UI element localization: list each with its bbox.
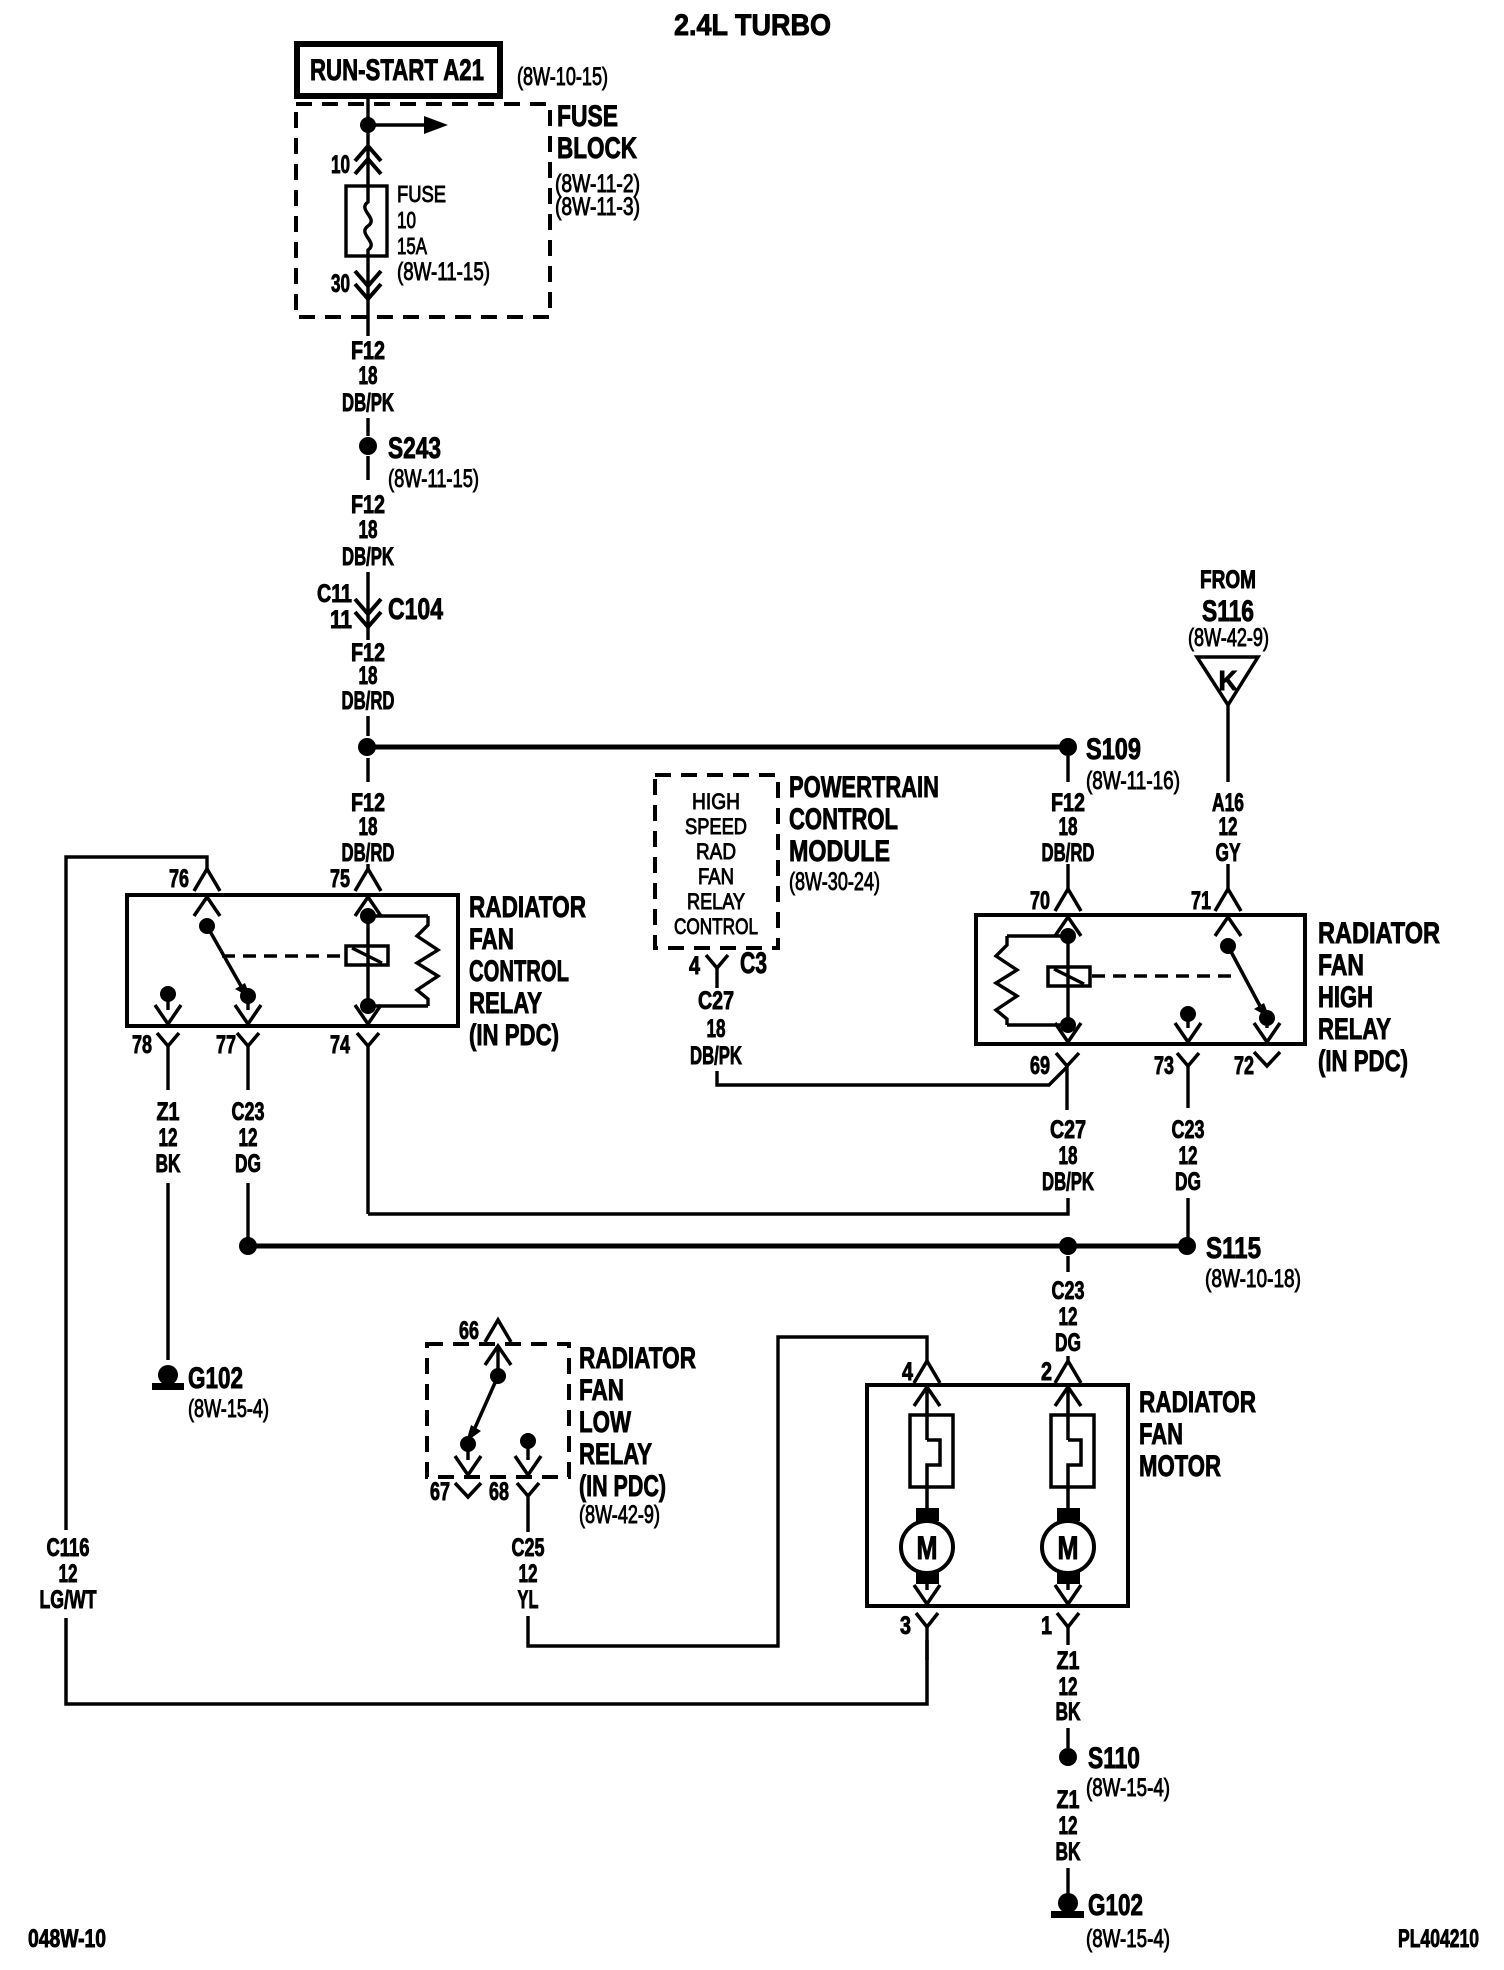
svg-text:DG: DG <box>235 1150 261 1178</box>
wire RUN-START to fuse <box>366 96 369 186</box>
svg-text:C27: C27 <box>698 987 734 1015</box>
value label FUSE 10 15A <box>397 181 490 286</box>
fuse block dashed box <box>296 104 550 317</box>
svg-text:C23: C23 <box>1052 1277 1085 1305</box>
relay switch arm 66-67 <box>460 1346 506 1452</box>
node RUN-START A21 feed box <box>297 44 500 96</box>
wire 78 to G102 <box>166 1183 169 1360</box>
svg-text:12: 12 <box>1059 1303 1078 1331</box>
pin 75 inner chevron <box>355 897 381 916</box>
pin 76 terminal <box>169 865 220 893</box>
relay coil winding resistor <box>368 916 438 1006</box>
connector C104 pin C11/11 (double chevron) <box>317 572 443 640</box>
svg-text:RELAY: RELAY <box>1318 1013 1391 1046</box>
svg-text:70: 70 <box>1030 887 1050 915</box>
svg-text:76: 76 <box>169 865 189 893</box>
pin 70 inner chevron <box>1055 917 1081 936</box>
svg-text:C104: C104 <box>388 593 443 626</box>
svg-text:DB/PK: DB/PK <box>1042 1168 1094 1196</box>
node junction at S109 bus left <box>358 738 376 756</box>
connector C3 pin 4 <box>689 947 767 988</box>
svg-text:75: 75 <box>330 865 350 893</box>
wire S109 to 70 <box>1066 756 1069 782</box>
svg-text:18: 18 <box>707 1015 726 1043</box>
wire 70 to 69 through coil <box>1060 928 1076 1033</box>
svg-text:Z1: Z1 <box>1057 1786 1080 1814</box>
relay coil armature box <box>1048 967 1090 986</box>
pin 4 inner chevron <box>914 1387 940 1406</box>
svg-text:(IN PDC): (IN PDC) <box>469 1019 559 1052</box>
svg-text:BK: BK <box>1056 1698 1081 1726</box>
pin 74 connector Y <box>330 1031 379 1214</box>
svg-text:18: 18 <box>1059 1142 1078 1170</box>
pin 77 connector Y <box>216 1031 259 1090</box>
svg-text:DB/RD: DB/RD <box>342 687 395 715</box>
relay K3 radiator fan low relay dashed box <box>427 1344 569 1477</box>
svg-text:12: 12 <box>1059 1673 1078 1701</box>
svg-text:C27: C27 <box>1050 1116 1086 1144</box>
svg-text:4: 4 <box>689 952 700 980</box>
circuit breaker left <box>910 1387 953 1508</box>
motor brush right bottom <box>1057 1571 1080 1584</box>
wire label C116 12 LG/WT <box>40 1534 97 1614</box>
svg-text:(IN PDC): (IN PDC) <box>1318 1045 1408 1078</box>
svg-text:RUN-START A21: RUN-START A21 <box>310 54 484 87</box>
svg-text:(8W-42-9): (8W-42-9) <box>1188 624 1269 652</box>
svg-text:(8W-10-18): (8W-10-18) <box>1205 1265 1301 1293</box>
svg-text:SPEED: SPEED <box>685 814 747 839</box>
wire 1 to S110 <box>1066 1728 1069 1748</box>
wire label A16 12 GY <box>1212 789 1244 867</box>
wire label Z1 12 BK <box>1056 1786 1081 1866</box>
node FROM S116 feed <box>1188 566 1269 652</box>
svg-text:FAN: FAN <box>579 1374 624 1407</box>
svg-text:(8W-10-15): (8W-10-15) <box>517 63 608 91</box>
svg-text:(8W-15-4): (8W-15-4) <box>188 1395 269 1423</box>
component name RADIATOR FAN HIGH RELAY <box>1318 917 1440 1078</box>
svg-text:12: 12 <box>1179 1142 1198 1170</box>
svg-text:CONTROL: CONTROL <box>469 955 569 988</box>
pin 73 inner dot and chevron <box>1175 1006 1201 1042</box>
svg-text:68: 68 <box>489 1478 509 1506</box>
wire <box>366 418 369 436</box>
svg-text:DG: DG <box>1175 1168 1201 1196</box>
svg-text:15A: 15A <box>397 233 427 259</box>
wire C116 to motor 3 <box>66 1618 927 1704</box>
svg-text:78: 78 <box>132 1031 152 1059</box>
svg-text:2.4L TURBO: 2.4L TURBO <box>674 9 831 42</box>
pin 2 inner chevron <box>1055 1387 1081 1406</box>
svg-text:M: M <box>917 1530 938 1566</box>
motor brush left top <box>916 1508 939 1521</box>
wire 74 to 69 <box>368 1198 1068 1214</box>
wire label Z1 12 BK <box>1056 1647 1081 1726</box>
wire K to A16 label <box>1226 705 1229 782</box>
svg-text:DG: DG <box>1055 1329 1081 1357</box>
relay K2 radiator fan high relay box <box>976 915 1305 1044</box>
wire label F12 18 DB/RD <box>1042 789 1095 867</box>
node junction dot in fuse block <box>360 117 376 133</box>
svg-text:LG/WT: LG/WT <box>40 1586 97 1614</box>
svg-text:BLOCK: BLOCK <box>557 132 637 165</box>
svg-text:C11: C11 <box>317 580 352 608</box>
svg-text:12: 12 <box>519 1560 538 1588</box>
svg-text:DB/PK: DB/PK <box>690 1042 742 1070</box>
pin 74 inner chevron <box>355 1005 381 1024</box>
wire <box>366 456 369 480</box>
svg-text:18: 18 <box>1059 813 1078 841</box>
pin 3 inner chevron <box>914 1584 940 1604</box>
svg-text:66: 66 <box>459 1317 479 1345</box>
svg-text:POWERTRAIN: POWERTRAIN <box>789 771 939 804</box>
svg-text:71: 71 <box>1191 887 1211 915</box>
pin 72 inner chevron <box>1254 1018 1280 1042</box>
wire S109 bus <box>367 745 1068 750</box>
pin 10 fuse block terminal (double chevron) <box>331 146 381 179</box>
svg-text:LOW: LOW <box>579 1406 632 1439</box>
svg-text:MOTOR: MOTOR <box>1139 1450 1221 1483</box>
svg-text:S243: S243 <box>388 432 441 465</box>
wire S110 to G102 <box>1066 1868 1069 1895</box>
wire 68 to motor 4 <box>528 1337 927 1646</box>
ground G102 right <box>1051 1889 1170 1953</box>
pin 2 terminal <box>1041 1356 1081 1386</box>
svg-text:DB/PK: DB/PK <box>342 389 394 417</box>
motor brush right top <box>1057 1508 1080 1521</box>
module PCM dashed box <box>655 775 778 948</box>
pin 69 connector Y <box>1030 1052 1079 1110</box>
svg-text:18: 18 <box>359 516 378 544</box>
pin 67 inner chevron <box>455 1444 481 1475</box>
svg-text:RADIATOR: RADIATOR <box>1318 917 1440 950</box>
motor M right <box>1042 1521 1094 1573</box>
svg-text:(8W-11-3): (8W-11-3) <box>555 193 640 221</box>
wire label Z1 12 BK <box>156 1098 181 1178</box>
circuit breaker right <box>1051 1387 1094 1508</box>
wire label C27 18 DB/PK <box>690 987 742 1070</box>
svg-text:C3: C3 <box>740 947 767 980</box>
svg-text:69: 69 <box>1030 1052 1050 1080</box>
ground G102 left <box>152 1362 269 1423</box>
svg-text:S110: S110 <box>1088 1742 1140 1775</box>
svg-text:(8W-11-16): (8W-11-16) <box>1086 767 1180 795</box>
svg-text:67: 67 <box>430 1478 450 1506</box>
svg-text:RADIATOR: RADIATOR <box>1139 1386 1256 1419</box>
motor brush left bottom <box>916 1571 939 1584</box>
svg-text:12: 12 <box>239 1124 258 1152</box>
pin 70 terminal <box>1030 864 1081 915</box>
svg-text:30: 30 <box>331 270 350 298</box>
pin 1 connector Y <box>1041 1612 1079 1645</box>
wire 73 to S115 <box>1186 1198 1189 1240</box>
svg-text:(8W-11-15): (8W-11-15) <box>397 258 490 286</box>
svg-text:RELAY: RELAY <box>687 889 745 914</box>
relay switch arm 76-77 <box>199 918 256 1004</box>
svg-text:12: 12 <box>1219 813 1238 841</box>
svg-text:BK: BK <box>1056 1838 1081 1866</box>
svg-text:18: 18 <box>359 662 378 690</box>
svg-text:HIGH: HIGH <box>692 789 740 814</box>
svg-text:12: 12 <box>1059 1812 1078 1840</box>
svg-text:(8W-15-4): (8W-15-4) <box>1086 1774 1170 1802</box>
component name FUSE BLOCK <box>555 100 640 221</box>
svg-text:Z1: Z1 <box>157 1098 180 1126</box>
pin 73 connector Y <box>1154 1052 1199 1108</box>
svg-text:11: 11 <box>330 606 352 634</box>
pin 78 inner dot and chevron <box>155 986 181 1024</box>
svg-text:18: 18 <box>359 362 378 390</box>
pin 76 inner chevron <box>194 897 220 916</box>
pin 68 inner dot and chevron <box>515 1433 541 1475</box>
pin 66 inner chevron <box>485 1346 511 1365</box>
svg-text:YL: YL <box>518 1586 539 1614</box>
pin 67 chevron <box>430 1478 481 1506</box>
pin 71 inner chevron <box>1215 917 1241 936</box>
svg-text:FAN: FAN <box>1139 1418 1183 1451</box>
svg-text:RELAY: RELAY <box>579 1438 652 1471</box>
pin 1 inner chevron <box>1055 1584 1081 1604</box>
pin 68 connector Y <box>489 1478 539 1532</box>
svg-text:C25: C25 <box>512 1534 545 1562</box>
connector K triangle <box>1197 657 1258 705</box>
wire label C23 12 DG <box>1052 1277 1085 1357</box>
pin 30 fuse block terminal (double chevron) <box>331 256 381 336</box>
relay K1 radiator fan control relay box <box>127 895 458 1026</box>
svg-text:RAD: RAD <box>696 839 736 864</box>
svg-text:CONTROL: CONTROL <box>789 803 898 836</box>
svg-text:S115: S115 <box>1206 1232 1261 1265</box>
wire <box>366 758 369 782</box>
component name POWERTRAIN CONTROL MODULE <box>789 771 939 896</box>
svg-text:F12: F12 <box>351 491 385 519</box>
motor M1 radiator fan motor box <box>867 1385 1128 1606</box>
pin 69 inner chevron <box>1055 1023 1081 1042</box>
wire S115 to motor 2 <box>1066 1256 1069 1272</box>
component name RADIATOR FAN LOW RELAY <box>579 1342 696 1529</box>
wire label C27 18 DB/PK <box>1042 1116 1094 1196</box>
svg-text:(8W-30-24): (8W-30-24) <box>789 868 880 896</box>
svg-text:3: 3 <box>900 1612 911 1640</box>
svg-text:73: 73 <box>1154 1052 1174 1080</box>
svg-text:DB/RD: DB/RD <box>342 839 395 867</box>
pin 66 terminal <box>459 1317 511 1345</box>
wire label C23 12 DG <box>232 1098 265 1178</box>
wire 77 to S115 <box>246 1183 249 1240</box>
svg-text:MODULE: MODULE <box>789 835 890 868</box>
svg-text:DB/RD: DB/RD <box>1042 839 1095 867</box>
node S109 splice <box>1059 733 1180 795</box>
svg-text:PL404210: PL404210 <box>1398 1925 1479 1953</box>
svg-text:M: M <box>1058 1530 1079 1566</box>
svg-text:FUSE: FUSE <box>397 181 446 207</box>
svg-text:77: 77 <box>216 1031 236 1059</box>
wire label F12 18 DB/PK <box>342 337 394 417</box>
pin 3 connector Y <box>900 1612 938 1660</box>
svg-text:12: 12 <box>159 1124 178 1152</box>
node S243 splice <box>359 432 479 493</box>
svg-text:FAN: FAN <box>1318 949 1364 982</box>
svg-text:74: 74 <box>330 1031 350 1059</box>
svg-text:048W-10: 048W-10 <box>28 1925 106 1953</box>
relay switch arm 71-72 <box>1220 938 1275 1026</box>
svg-text:(8W-42-9): (8W-42-9) <box>579 1501 660 1529</box>
svg-text:(IN PDC): (IN PDC) <box>579 1470 666 1503</box>
svg-text:C23: C23 <box>232 1098 265 1126</box>
svg-text:(8W-11-15): (8W-11-15) <box>388 465 479 493</box>
svg-text:S109: S109 <box>1086 733 1141 766</box>
relay coil link dashed <box>222 954 344 957</box>
wire PCM to pin 69 <box>717 1067 1067 1085</box>
wire label F12 18 DB/PK <box>342 491 394 571</box>
pin 77 inner chevron <box>235 996 261 1024</box>
motor M left <box>901 1521 953 1573</box>
wire arrow feed to other circuits <box>368 116 448 134</box>
component name RADIATOR FAN CONTROL RELAY <box>469 891 586 1052</box>
svg-text:C23: C23 <box>1172 1116 1205 1144</box>
relay coil winding resistor <box>996 936 1068 1025</box>
component name RADIATOR FAN MOTOR <box>1139 1386 1256 1483</box>
wire <box>366 716 369 736</box>
svg-text:FAN: FAN <box>698 864 734 889</box>
pin 72 chevron <box>1234 1052 1280 1080</box>
svg-text:RADIATOR: RADIATOR <box>469 891 586 924</box>
svg-text:G102: G102 <box>188 1362 243 1395</box>
svg-text:K: K <box>1219 665 1238 696</box>
svg-text:1: 1 <box>1041 1612 1052 1640</box>
svg-text:CONTROL: CONTROL <box>674 914 758 939</box>
svg-text:RELAY: RELAY <box>469 987 542 1020</box>
svg-text:2: 2 <box>1041 1358 1052 1386</box>
svg-text:10: 10 <box>397 207 416 233</box>
wire 75 to 74 through coil <box>360 908 376 1014</box>
svg-text:18: 18 <box>359 813 378 841</box>
relay coil armature box <box>346 946 388 965</box>
svg-text:GY: GY <box>1216 839 1241 867</box>
svg-text:C116: C116 <box>47 1534 90 1562</box>
svg-text:Z1: Z1 <box>1057 1647 1080 1675</box>
wire label F12 18 DB/RD <box>342 789 395 867</box>
svg-text:FROM: FROM <box>1200 566 1256 594</box>
pin 71 terminal <box>1191 864 1241 915</box>
pin 78 connector Y <box>132 1031 179 1090</box>
svg-text:12: 12 <box>59 1560 78 1588</box>
fuse F10 15A <box>346 186 387 256</box>
svg-text:DB/PK: DB/PK <box>342 543 394 571</box>
svg-text:4: 4 <box>902 1358 913 1386</box>
label HIGH SPEED RAD FAN RELAY CONTROL <box>674 789 758 939</box>
svg-text:HIGH: HIGH <box>1318 981 1373 1014</box>
pin 75 terminal <box>330 864 381 893</box>
wire label C25 12 YL <box>512 1534 545 1614</box>
svg-text:(8W-15-4): (8W-15-4) <box>1086 1925 1170 1953</box>
svg-text:FAN: FAN <box>469 923 514 956</box>
relay coil link dashed <box>1092 974 1238 977</box>
wire label C23 12 DG <box>1172 1116 1205 1196</box>
svg-text:F12: F12 <box>351 337 385 365</box>
wire 76 to left bus C116 <box>66 857 207 1530</box>
svg-text:10: 10 <box>331 151 350 179</box>
node S110 splice <box>1059 1742 1170 1802</box>
svg-text:RADIATOR: RADIATOR <box>579 1342 696 1375</box>
svg-text:FUSE: FUSE <box>557 100 618 133</box>
pin 4 terminal <box>902 1358 940 1386</box>
wire label F12 18 DB/RD <box>342 639 395 715</box>
svg-text:G102: G102 <box>1088 1889 1143 1922</box>
svg-text:72: 72 <box>1234 1052 1254 1080</box>
node S115 splice bus <box>239 1232 1301 1293</box>
svg-text:BK: BK <box>156 1150 181 1178</box>
